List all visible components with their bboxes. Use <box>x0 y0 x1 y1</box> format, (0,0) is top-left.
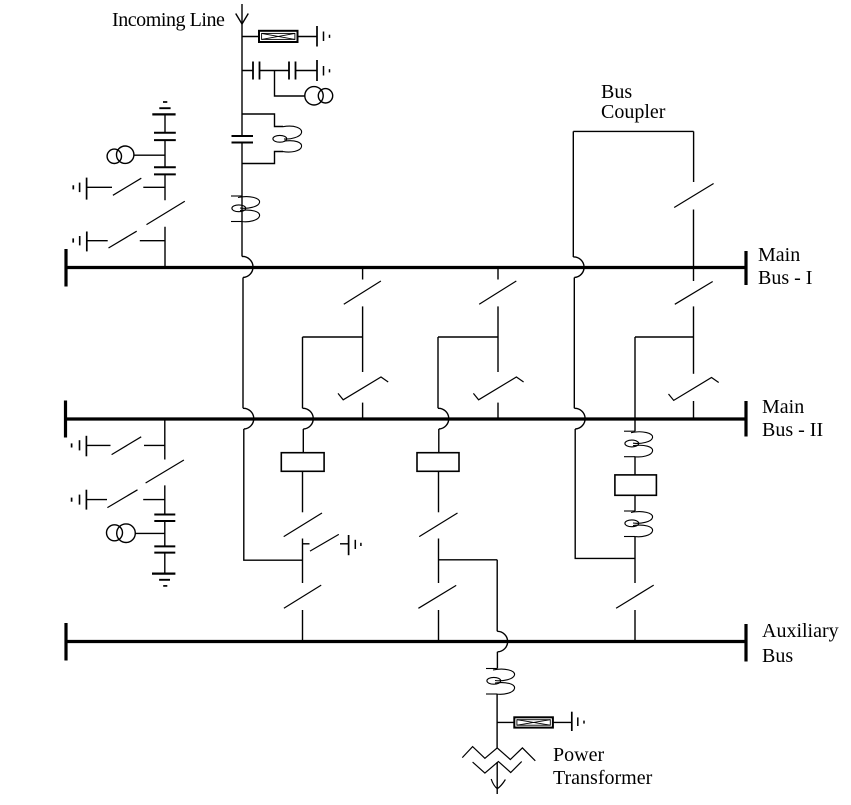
power transformer arrow <box>491 762 505 794</box>
wire left PT bay riser <box>164 114 166 267</box>
wire feeder1 riser top <box>302 429 304 453</box>
wire feeder1 to Auxiliary Bus <box>302 610 304 640</box>
node label Incoming Line <box>112 9 224 33</box>
wire right bay riser below Bus I <box>693 269 695 281</box>
wire bus coupler top <box>573 130 693 132</box>
wire incoming riser mid <box>241 143 243 257</box>
power transformer winding upper <box>462 747 535 761</box>
series capacitor on incoming riser <box>232 136 254 143</box>
disconnector feeder2 main <box>419 513 457 537</box>
wire bay B riser mid <box>497 306 499 372</box>
earth switch ES3 <box>86 437 164 455</box>
earth terminal right of line trap <box>317 26 330 47</box>
disconnector right bay upper <box>675 282 713 305</box>
bus Auxiliary Bus <box>66 623 747 662</box>
wire feeder1 riser 2 <box>302 471 304 512</box>
wire CVT branch <box>242 70 317 72</box>
circuit breaker feeder1 <box>281 453 324 472</box>
hop coupler left over Main Bus II <box>574 408 585 429</box>
wire coupler left riser mid <box>573 278 575 409</box>
disconnector bay A lower hooked <box>338 377 388 400</box>
capacitor lower-left bay lower <box>154 546 175 552</box>
wire right bay L branch <box>635 337 694 431</box>
wire feeder2 transfer jumper <box>439 560 498 632</box>
disconnector bay B upper <box>479 281 516 304</box>
coupling capacitor C2 <box>289 62 296 80</box>
earth switch ES4 <box>86 490 164 508</box>
hop bay A branch over Main Bus II <box>303 408 314 429</box>
wire bay A L branch <box>303 337 363 408</box>
bay B riser stub below Bus I <box>497 269 499 280</box>
line trap LT2 <box>514 717 553 727</box>
wire right feeder riser 3 <box>634 537 636 584</box>
wire line trap 2 branch <box>497 721 571 723</box>
disconnector right feeder lower <box>616 585 654 608</box>
circuit breaker right feeder <box>615 475 657 495</box>
node label Main Bus - II <box>762 396 823 442</box>
circuit breaker feeder2 <box>417 453 459 472</box>
CT coil right feeder lower <box>624 511 653 537</box>
wire coupler left riser upper <box>572 131 574 257</box>
node label Main Bus - I <box>758 244 812 290</box>
disconnector feeder1 main <box>284 513 322 537</box>
wire coupler left riser lower <box>575 429 635 558</box>
wire transformer riser mid <box>496 694 498 748</box>
wire right feeder riser <box>634 457 636 475</box>
wire CVT tap <box>275 71 305 97</box>
earth terminal right of CVT <box>317 60 330 81</box>
line trap LT1 <box>259 31 298 42</box>
node label Bus Coupler <box>601 82 665 123</box>
wire incoming riser upper <box>241 36 243 136</box>
wire coupler right riser to Bus I <box>693 210 695 268</box>
wire feeder2 to Auxiliary Bus <box>438 610 440 640</box>
earth switch ES2 terminal <box>73 232 87 252</box>
incoming line arrow <box>236 4 249 36</box>
wire coupler right riser upper <box>693 131 695 182</box>
wire line trap branch <box>242 36 317 38</box>
wire right bay riser mid <box>693 306 695 373</box>
bus Main Bus II <box>65 401 747 438</box>
wire incoming riser to feeder junction <box>244 429 303 560</box>
wire bay B L branch <box>438 337 498 408</box>
earth terminal feeder1 <box>349 535 361 555</box>
earth switch ES3 terminal <box>72 436 87 457</box>
disconnector on left riser DS1 <box>147 201 185 224</box>
wire feeder2 riser top <box>438 429 440 453</box>
power transformer winding lower <box>473 762 522 774</box>
disconnector bay B lower hooked <box>473 377 523 400</box>
earth switch ES4 terminal <box>72 490 87 510</box>
hop incoming riser over Main Bus II <box>243 408 254 429</box>
disconnector bay A upper <box>344 281 381 304</box>
wire bay A riser mid <box>362 306 364 372</box>
earth switch ES1 terminal <box>73 178 86 200</box>
wire incoming riser between buses <box>242 278 244 409</box>
wire feeder1 riser 3 <box>302 539 304 584</box>
hop coupler left over Main Bus I <box>573 257 584 278</box>
earth terminal right of line trap 2 <box>572 712 584 731</box>
CT coil right feeder upper <box>624 431 653 457</box>
hop bay B branch over Main Bus II <box>438 408 449 429</box>
wire right feeder riser 2 <box>634 495 636 511</box>
disconnector right bay lower hooked <box>669 378 719 401</box>
wire bypass loop <box>242 114 283 164</box>
bay A riser stub below Bus I <box>362 269 364 280</box>
ground bottom of lower-left PT bay <box>152 574 175 586</box>
capacitor left PT bay lower <box>154 167 176 174</box>
hop transformer feeder over Auxiliary Bus <box>497 631 507 652</box>
wire bay A riser to Bus II <box>362 403 364 418</box>
hop incoming riser over Main Bus I <box>242 256 253 277</box>
capacitor lower-left bay upper <box>154 515 175 522</box>
CT coil on incoming riser <box>231 196 260 222</box>
CT coil transformer feeder <box>486 669 515 695</box>
disconnector bus coupler <box>674 184 713 208</box>
node label Auxiliary Bus <box>762 619 839 668</box>
metering PT1 circles <box>305 87 333 105</box>
bus Main Bus I <box>66 249 747 287</box>
CT coil on bypass <box>273 126 302 152</box>
node label Power Transformer <box>553 744 652 791</box>
earth switch ES1 <box>87 178 165 195</box>
earth switch feeder1 <box>303 534 349 551</box>
wire transformer riser top <box>496 652 498 669</box>
capacitor left PT bay upper <box>154 133 176 140</box>
disconnector feeder1 lower <box>284 585 321 608</box>
wire lower-left PT bay riser <box>164 419 166 573</box>
wire bay B riser to Bus II <box>497 403 499 418</box>
disconnector feeder2 lower <box>418 585 456 608</box>
wire right bay riser to Bus II <box>693 401 695 418</box>
voltage transformer circles left top <box>107 146 165 164</box>
wire feeder2 riser 3 <box>438 539 440 584</box>
voltage transformer circles left bottom <box>107 524 165 543</box>
earth switch ES2 <box>87 231 165 248</box>
disconnector on lower-left riser DS2 <box>146 460 184 483</box>
wire right feeder to Auxiliary Bus <box>634 610 636 640</box>
ground top of left PT bay <box>152 102 175 114</box>
wire feeder2 riser 2 <box>438 471 440 512</box>
coupling capacitor C1 <box>253 62 260 80</box>
